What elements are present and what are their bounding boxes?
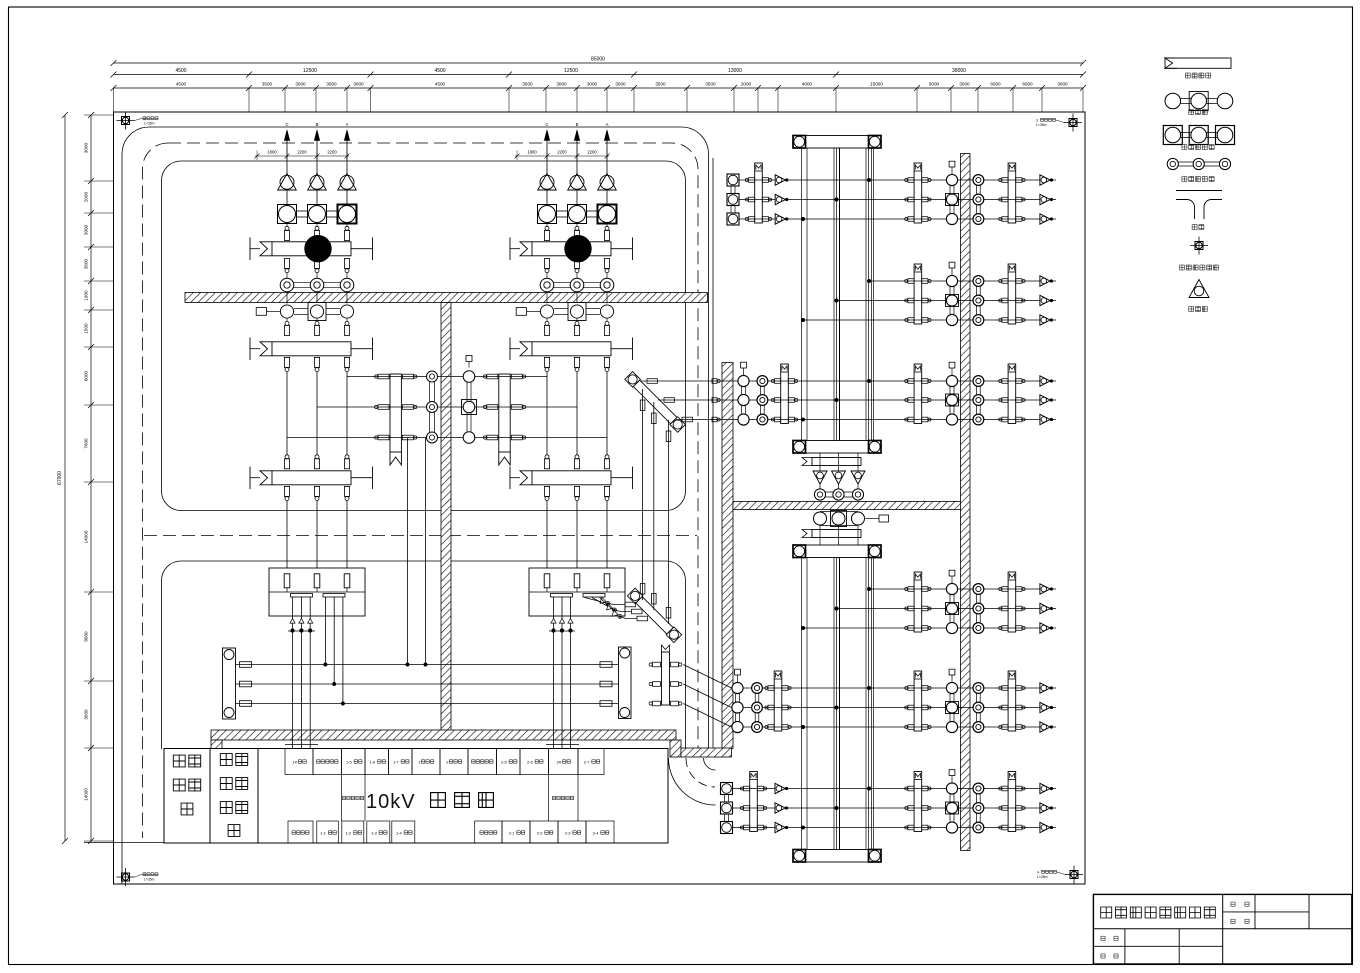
wall W5 right switchyard vertical bbox=[961, 154, 971, 851]
svg-text:8000: 8000 bbox=[84, 631, 89, 642]
svg-text:3500: 3500 bbox=[655, 82, 666, 87]
checker label bbox=[1101, 954, 1118, 958]
svg-text:1800: 1800 bbox=[267, 150, 277, 155]
drafter label bbox=[1101, 936, 1118, 940]
busbar tower 2 bbox=[793, 545, 881, 862]
svg-text:3000: 3000 bbox=[587, 82, 598, 87]
circuit breakers bay 1 bbox=[278, 205, 357, 224]
svg-text:3: 3 bbox=[1036, 118, 1038, 122]
svg-text:C: C bbox=[285, 122, 288, 127]
svg-text:5000: 5000 bbox=[929, 82, 940, 87]
svg-text:3000: 3000 bbox=[84, 142, 89, 153]
svg-text:3000: 3000 bbox=[84, 709, 89, 720]
disconnector QS-M2 bbox=[483, 374, 525, 465]
svg-text:2000: 2000 bbox=[84, 191, 89, 202]
svg-text:4500: 4500 bbox=[175, 68, 186, 74]
legend disconnector symbol bbox=[1165, 58, 1231, 78]
10kV room bottom cells left bbox=[288, 821, 415, 843]
svg-text:10kV: 10kV bbox=[366, 791, 416, 813]
switchgear bar QS2a bbox=[510, 338, 633, 361]
fuses C1 bbox=[240, 662, 252, 707]
scale label bbox=[1231, 902, 1249, 906]
svg-text:1: 1 bbox=[144, 873, 146, 877]
svg-text:1-3: 1-3 bbox=[371, 830, 378, 835]
svg-text:4: 4 bbox=[1037, 870, 1039, 874]
drawing title text bbox=[1101, 907, 1216, 918]
surge arresters bay 1 bbox=[278, 174, 357, 206]
svg-text:2-5: 2-5 bbox=[501, 759, 508, 764]
svg-text:2-4: 2-4 bbox=[593, 830, 600, 835]
legend current transformer symbol bbox=[1167, 158, 1230, 181]
CT row between towers bbox=[814, 489, 863, 500]
wall W1 horizontal bbox=[185, 293, 708, 303]
10kV distribution room bbox=[258, 749, 668, 844]
svg-text:L=35m: L=35m bbox=[144, 121, 155, 125]
bushings row4 bay 2 bbox=[544, 455, 609, 469]
svg-text:B: B bbox=[576, 122, 579, 127]
svg-text:14000: 14000 bbox=[84, 788, 89, 801]
svg-text:3500: 3500 bbox=[705, 82, 716, 87]
svg-text:2-2: 2-2 bbox=[537, 830, 544, 835]
left dimension lines bbox=[57, 112, 114, 844]
feeder group 5 right chain bbox=[801, 669, 1056, 732]
wall W4 corner step bbox=[670, 740, 681, 757]
site boundary fence bbox=[114, 112, 1086, 884]
svg-text:A: A bbox=[346, 122, 349, 127]
svg-text:15000: 15000 bbox=[870, 82, 883, 87]
feeder group 2 right chain bbox=[801, 262, 1056, 325]
svg-text:85000: 85000 bbox=[591, 57, 605, 63]
svg-text:2#: 2# bbox=[557, 759, 562, 764]
disconnector QS-M1 bbox=[375, 374, 417, 465]
bushings upper bay 1 bbox=[284, 224, 349, 241]
svg-text:3000: 3000 bbox=[353, 82, 364, 87]
svg-text:3000: 3000 bbox=[295, 82, 306, 87]
svg-text:A: A bbox=[606, 122, 609, 127]
busbar tower 1 bbox=[793, 136, 881, 454]
diagonal feeder cables to switchyard bbox=[683, 665, 731, 728]
wall W3b horizontal branch bbox=[733, 502, 965, 510]
bus link bar lower bbox=[802, 526, 861, 546]
svg-text:4000: 4000 bbox=[802, 82, 813, 87]
incoming line arrows bay 1 bbox=[284, 122, 349, 174]
bushings row3 bay 1 bbox=[284, 319, 349, 336]
disconnector QS-out bbox=[649, 645, 682, 706]
cable feeder to 2# transformer cell bbox=[546, 597, 579, 749]
svg-text:1-1: 1-1 bbox=[320, 830, 327, 835]
top dimension lines bbox=[111, 57, 1087, 113]
bushings lower bay 2 bbox=[544, 259, 609, 279]
svg-text:2200: 2200 bbox=[587, 150, 597, 155]
10kV room top cells bbox=[285, 749, 604, 775]
lightning rod LP4 bbox=[1037, 866, 1083, 884]
current transformers bay 2 bbox=[540, 278, 614, 292]
cable links bay1 to bus rows bbox=[324, 597, 345, 705]
svg-text:2-6: 2-6 bbox=[527, 759, 534, 764]
lightning rod LP3 bbox=[1036, 114, 1082, 132]
main transformer T2 row bbox=[510, 236, 633, 262]
svg-text:6000: 6000 bbox=[1022, 82, 1033, 87]
switchgear bar QS1b bbox=[250, 467, 373, 490]
arrester triangles between towers bbox=[813, 453, 865, 489]
capacitor bank C1 structure bbox=[223, 648, 236, 719]
diagonal switch bar lower bbox=[627, 588, 681, 642]
legend arrester symbol bbox=[1189, 280, 1209, 312]
svg-text:C: C bbox=[545, 122, 548, 127]
svg-text:3500: 3500 bbox=[84, 258, 89, 269]
svg-text:3900: 3900 bbox=[84, 224, 89, 235]
svg-text:2: 2 bbox=[144, 117, 146, 121]
breaker column mid bay bbox=[462, 356, 477, 444]
35kV bridge bus rows bbox=[287, 377, 608, 438]
cable feeder to 1# transformer cell bbox=[285, 597, 318, 749]
capacitor bank C2 structure bbox=[619, 647, 632, 719]
svg-text:1#: 1# bbox=[292, 759, 297, 764]
feeder group 6 right chain bbox=[801, 770, 1056, 833]
svg-text:67000: 67000 bbox=[57, 471, 63, 485]
title block frame bbox=[1093, 894, 1351, 964]
bushings row4 bay 1 bbox=[284, 455, 349, 469]
bay 1 spacing dimensions bbox=[255, 150, 350, 161]
lightning rod LP2 bbox=[117, 112, 159, 130]
current transformers bay 1 bbox=[280, 278, 354, 292]
bridge risers to 10kV rows bbox=[406, 438, 427, 667]
diagonal switch bar upper bbox=[625, 372, 686, 433]
svg-text:B: B bbox=[316, 122, 319, 127]
bus bridge column 2 bbox=[549, 775, 579, 822]
svg-text:4500: 4500 bbox=[176, 82, 187, 87]
svg-text:1500: 1500 bbox=[84, 323, 89, 334]
svg-text:2-3: 2-3 bbox=[565, 830, 572, 835]
main transformer T1 row bbox=[250, 236, 373, 262]
phase conductors bay 2 bbox=[544, 357, 609, 455]
svg-text:12500: 12500 bbox=[303, 68, 317, 74]
incoming line arrows bay 2 bbox=[544, 122, 609, 174]
feeder group 1 right chain bbox=[801, 161, 1056, 224]
inter-bar risers bbox=[640, 389, 671, 624]
road loop bbox=[122, 127, 716, 884]
transformer house 2 bbox=[529, 568, 625, 616]
feeder group 3 right chain bbox=[801, 362, 1056, 425]
svg-text:1-5: 1-5 bbox=[346, 759, 353, 764]
switchgear bar QS1a bbox=[250, 338, 373, 361]
feeder group 5 left chain bbox=[732, 669, 802, 732]
bus link bar upper bbox=[802, 458, 861, 466]
svg-text:1-2: 1-2 bbox=[346, 830, 353, 835]
cable risers bay 2 bbox=[544, 486, 609, 568]
legend breaker symbol bbox=[1165, 92, 1233, 115]
svg-text:1-6: 1-6 bbox=[369, 759, 376, 764]
baseline below rooms bbox=[84, 842, 164, 844]
bushings lower bay 1 bbox=[284, 259, 349, 279]
surge arresters bay 2 bbox=[538, 174, 617, 206]
disconnect switches bay 1 bbox=[256, 292, 353, 321]
disconnect switches bay 2 bbox=[516, 292, 613, 321]
svg-text:14000: 14000 bbox=[84, 530, 89, 543]
svg-text:7000: 7000 bbox=[84, 438, 89, 449]
svg-text:3500: 3500 bbox=[262, 82, 273, 87]
svg-text:1-4: 1-4 bbox=[396, 830, 403, 835]
switchgear bar QS2b bbox=[510, 467, 633, 490]
fuses C2 bbox=[600, 662, 612, 707]
electrical secondary equipment room bbox=[210, 749, 258, 844]
feeder group 4 right chain bbox=[801, 570, 1056, 633]
wall W4b horizontal stub bbox=[681, 748, 732, 757]
legend voltage transformer symbol bbox=[1163, 126, 1234, 150]
svg-text:3000: 3000 bbox=[1057, 82, 1068, 87]
svg-text:1900: 1900 bbox=[84, 290, 89, 301]
svg-text:2200: 2200 bbox=[557, 150, 567, 155]
svg-text:3000: 3000 bbox=[615, 82, 626, 87]
svg-text:2000: 2000 bbox=[741, 82, 752, 87]
svg-text:6000: 6000 bbox=[84, 370, 89, 381]
svg-text:1-7: 1-7 bbox=[393, 759, 400, 764]
svg-text:2-7: 2-7 bbox=[584, 759, 591, 764]
wall W4 horizontal above rooms bbox=[211, 730, 676, 740]
10kV outgoing bus rows bbox=[236, 665, 619, 704]
bushings row3 bay 2 bbox=[544, 319, 609, 336]
feeder group 3 left chain bbox=[641, 362, 802, 425]
bay 2 spacing dimensions bbox=[515, 150, 610, 161]
feeder group 6 left chain bbox=[721, 772, 802, 834]
feeder group 1 left chain bbox=[727, 163, 802, 225]
diagonal cables bay2 bbox=[585, 597, 648, 621]
svg-text:2-1: 2-1 bbox=[509, 830, 516, 835]
CT column mid bay bbox=[427, 371, 438, 443]
legend lightning rod symbol bbox=[1180, 237, 1219, 271]
svg-text:L=35m: L=35m bbox=[1037, 875, 1048, 879]
svg-text:6000: 6000 bbox=[990, 82, 1001, 87]
svg-text:4500: 4500 bbox=[435, 82, 446, 87]
svg-text:12500: 12500 bbox=[564, 68, 578, 74]
svg-text:L=35m: L=35m bbox=[1036, 123, 1047, 127]
svg-text:13000: 13000 bbox=[728, 68, 742, 74]
svg-text:1800: 1800 bbox=[527, 150, 537, 155]
bushings upper bay 2 bbox=[544, 224, 609, 241]
svg-text:38000: 38000 bbox=[952, 68, 966, 74]
svg-text:3500: 3500 bbox=[522, 82, 533, 87]
material label bbox=[1231, 919, 1249, 923]
circuit breakers bay 2 bbox=[538, 205, 617, 224]
svg-text:2200: 2200 bbox=[297, 150, 307, 155]
wall W3 vertical near road bbox=[722, 363, 733, 749]
wall W2 central vertical bbox=[441, 303, 451, 741]
svg-text:3000: 3000 bbox=[556, 82, 567, 87]
10kV room bottom cells right bbox=[475, 821, 614, 843]
cable risers bay 1 bbox=[284, 486, 349, 568]
legend road symbol bbox=[1176, 191, 1222, 230]
svg-text:L=35m: L=35m bbox=[144, 877, 155, 881]
breaker row between towers bbox=[814, 511, 889, 527]
wall W4 left end step bbox=[211, 740, 222, 749]
transformer house 1 bbox=[269, 568, 365, 616]
svg-text:3000: 3000 bbox=[326, 82, 337, 87]
lightning rod LP1 bbox=[117, 868, 159, 886]
comprehensive function room bbox=[164, 749, 210, 844]
svg-text:4500: 4500 bbox=[434, 68, 445, 74]
svg-text:3000: 3000 bbox=[959, 82, 970, 87]
bus bridge column 1 bbox=[342, 775, 366, 822]
svg-text:2200: 2200 bbox=[327, 150, 337, 155]
phase conductors bay 1 bbox=[284, 357, 349, 455]
